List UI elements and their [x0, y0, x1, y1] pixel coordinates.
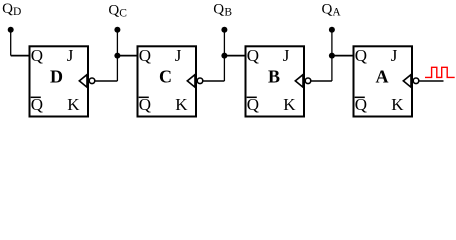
wire: QD terminal down to Q-pin row: [10, 30, 12, 56]
wire: node QB to Q pin of flip-flop B: [224, 55, 246, 57]
wire: node QA to Q pin of flip-flop A: [332, 55, 355, 57]
wire: node QD to Q pin of flip-flop D: [11, 55, 31, 57]
svg-text:B: B: [224, 6, 232, 18]
svg-text:K: K: [175, 95, 188, 114]
wire: node QA down to clock row: [331, 56, 333, 81]
clock inversion bubble of flip-flop B: [305, 78, 311, 84]
svg-text:Q: Q: [355, 46, 367, 65]
svg-text:Q: Q: [247, 46, 259, 65]
junction dot at node QC: [114, 53, 120, 59]
svg-text:C: C: [159, 67, 172, 87]
clock edge triangle of flip-flop C: [187, 75, 195, 88]
svg-text:Q: Q: [322, 1, 333, 17]
svg-text:A: A: [332, 6, 341, 18]
svg-text:D: D: [13, 6, 21, 18]
clock edge triangle of flip-flop B: [295, 75, 303, 88]
wire: node QB down to clock row: [223, 56, 225, 81]
svg-text:J: J: [391, 46, 398, 65]
svg-text:B: B: [268, 67, 280, 87]
node QB terminal dot: [221, 27, 227, 33]
clock source square-wave symbol: [425, 67, 455, 77]
flip-flop B box: [246, 46, 305, 116]
wire: QA terminal down to Q-pin row: [331, 30, 333, 56]
wire: external clock input to flip-flop A bubble: [419, 80, 443, 82]
flip-flop A box: [354, 46, 413, 116]
junction dot at node QA: [329, 53, 335, 59]
svg-text:Q: Q: [213, 1, 224, 17]
node QD terminal dot: [8, 27, 14, 33]
clock edge triangle of flip-flop A: [403, 75, 411, 88]
clock edge triangle of flip-flop D: [79, 75, 87, 88]
svg-text:Q: Q: [2, 1, 13, 17]
svg-text:K: K: [67, 95, 80, 114]
svg-text:Q: Q: [139, 46, 151, 65]
svg-text:K: K: [283, 95, 296, 114]
flip-flop C box: [138, 46, 197, 116]
clock inversion bubble of flip-flop A: [413, 78, 419, 84]
wire: QB terminal down to Q-pin row: [223, 30, 225, 56]
wire: node QC down to clock row: [116, 56, 118, 81]
svg-text:A: A: [376, 67, 389, 87]
wire: QC terminal down to Q-pin row: [116, 30, 118, 56]
svg-text:Q: Q: [108, 2, 119, 18]
wire: node QC to Q pin of flip-flop C: [117, 55, 138, 57]
svg-text:J: J: [283, 46, 290, 65]
node QC terminal dot: [114, 27, 120, 33]
wire: node QA to clock bubble of flip-flop B: [311, 80, 332, 82]
wire: node QC to clock bubble of flip-flop D: [95, 80, 117, 82]
node QA terminal dot: [329, 27, 335, 33]
svg-text:Q: Q: [31, 46, 43, 65]
clock inversion bubble of flip-flop C: [197, 78, 203, 84]
flip-flop D box: [30, 46, 89, 116]
clock inversion bubble of flip-flop D: [89, 78, 95, 84]
svg-text:J: J: [175, 46, 182, 65]
wire: node QB to clock bubble of flip-flop C: [203, 80, 224, 82]
svg-text:C: C: [119, 7, 127, 19]
svg-text:K: K: [391, 95, 404, 114]
junction dot at node QB: [221, 53, 227, 59]
svg-text:D: D: [50, 67, 63, 87]
svg-text:J: J: [67, 46, 74, 65]
